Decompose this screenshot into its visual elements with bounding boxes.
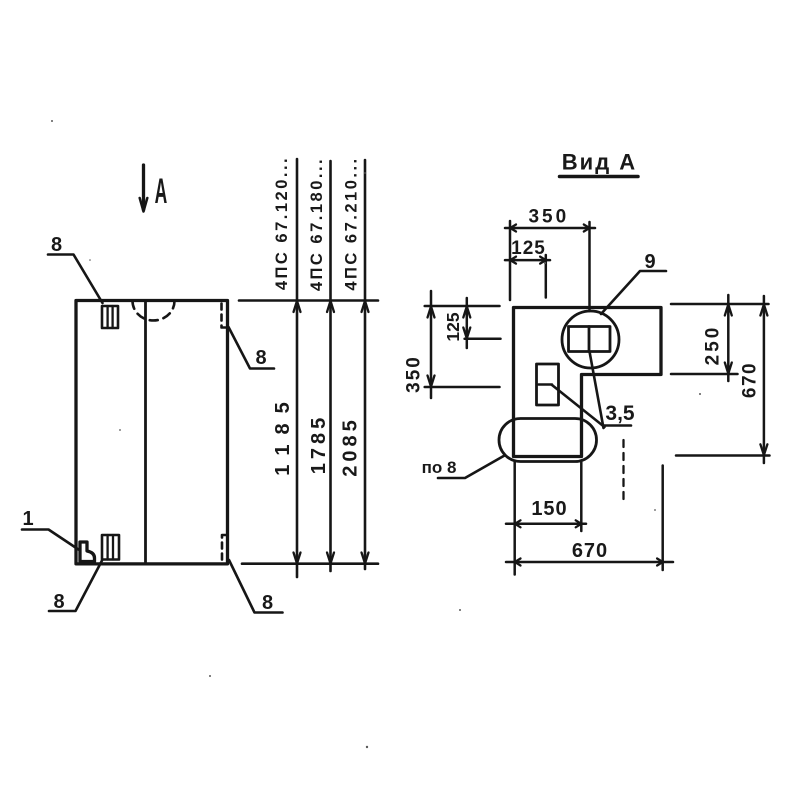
svg-text:по 8: по 8 — [422, 458, 457, 477]
svg-text:350: 350 — [404, 355, 425, 393]
svg-text:670: 670 — [740, 362, 761, 398]
svg-text:350: 350 — [528, 207, 569, 228]
svg-text:А: А — [155, 171, 168, 210]
svg-text:8: 8 — [51, 234, 62, 256]
svg-text:1185: 1185 — [272, 392, 294, 475]
svg-text:1: 1 — [22, 508, 33, 530]
svg-text:4ПС 67.120...: 4ПС 67.120... — [273, 156, 291, 290]
svg-text:4ПС 67.180...: 4ПС 67.180... — [308, 157, 326, 291]
svg-text:8: 8 — [262, 592, 273, 614]
svg-text:250: 250 — [703, 325, 724, 366]
svg-text:4ПС 67.210...: 4ПС 67.210... — [343, 156, 361, 290]
svg-text:670: 670 — [572, 540, 608, 562]
svg-text:125: 125 — [443, 312, 463, 341]
svg-text:125: 125 — [511, 238, 546, 259]
svg-text:8: 8 — [255, 347, 266, 369]
svg-text:150: 150 — [531, 498, 567, 520]
svg-text:Вид А: Вид А — [562, 150, 637, 175]
svg-text:8: 8 — [53, 591, 64, 613]
svg-text:1785: 1785 — [308, 414, 330, 475]
svg-text:9: 9 — [644, 251, 655, 273]
svg-text:3,5: 3,5 — [605, 402, 635, 425]
svg-text:2085: 2085 — [340, 416, 362, 477]
